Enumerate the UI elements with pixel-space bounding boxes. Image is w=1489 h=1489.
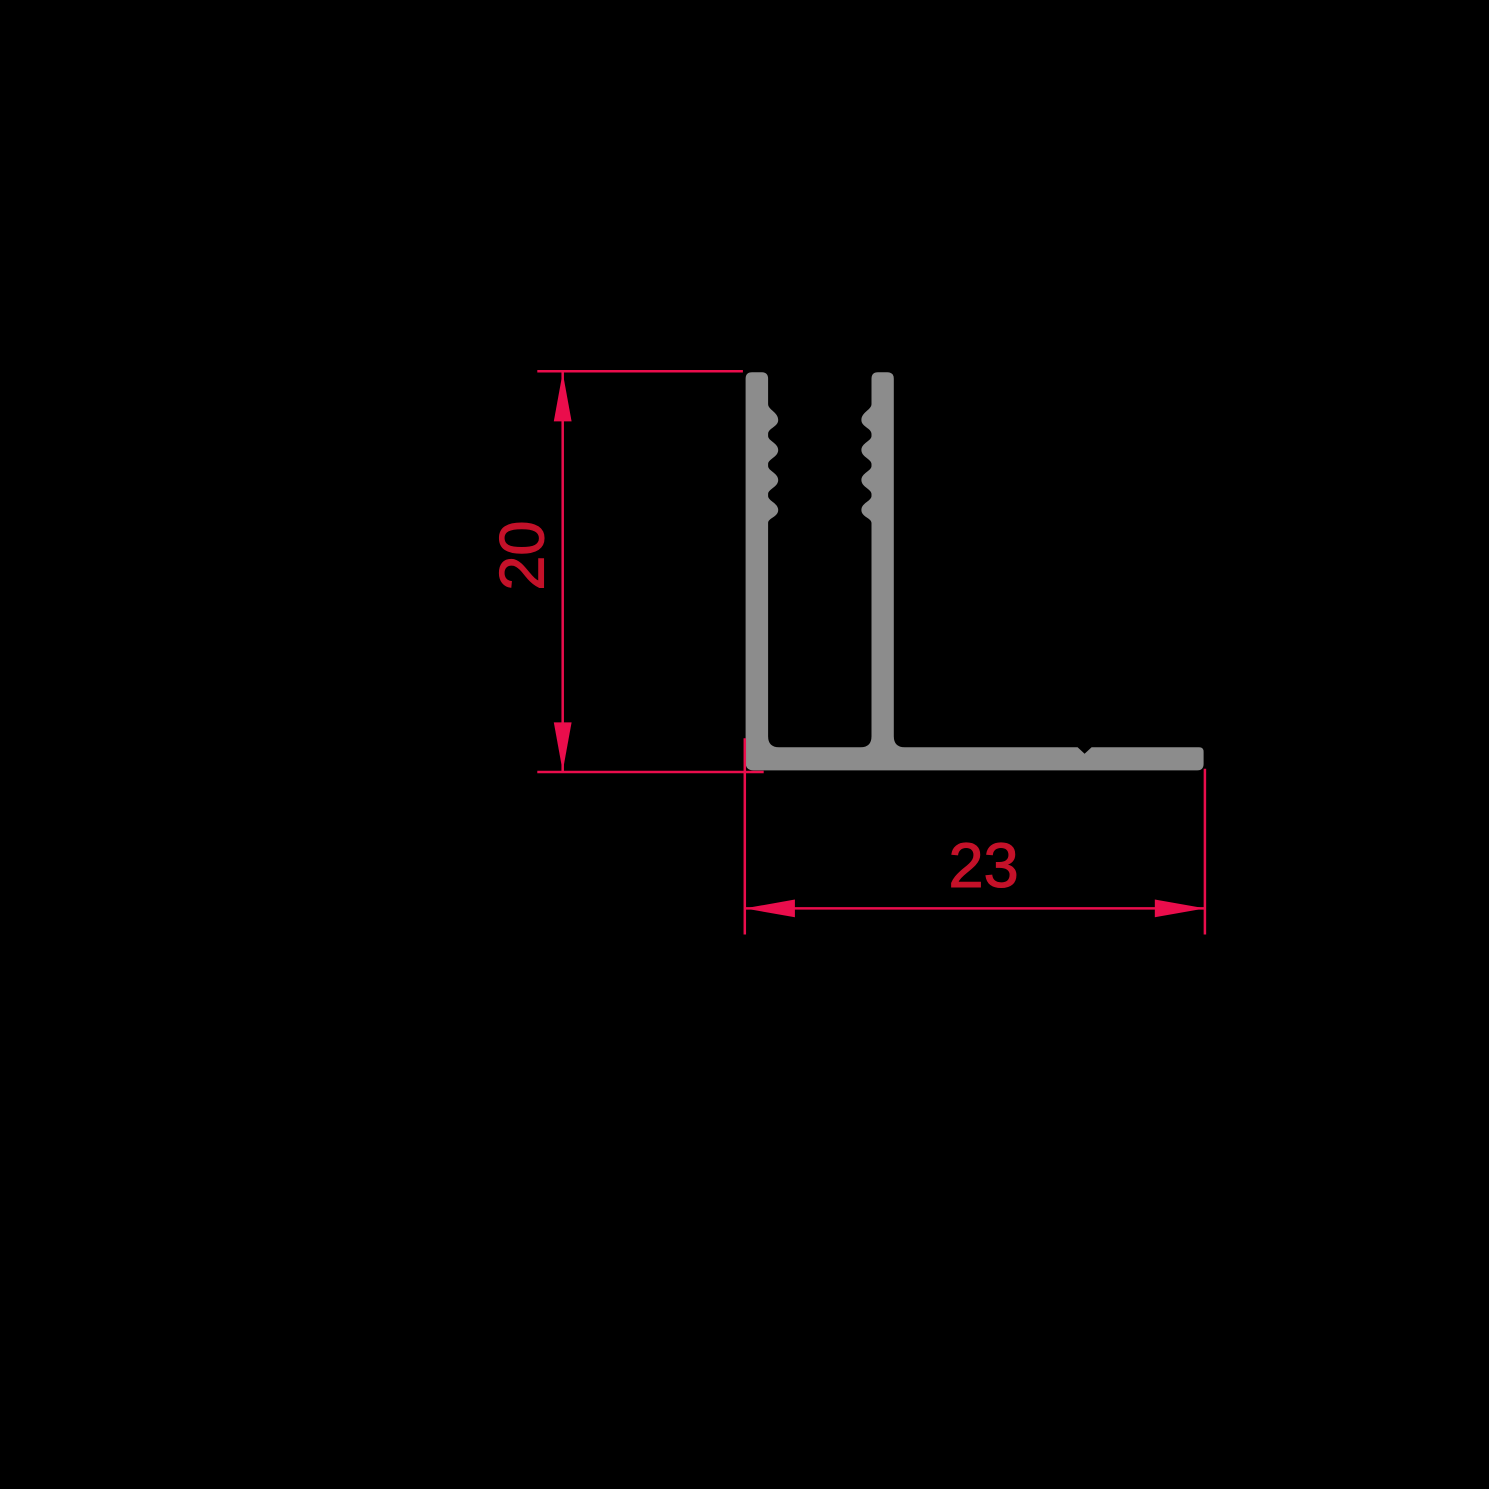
extension line left (23 dim) — [744, 738, 747, 934]
svg-text:20: 20 — [488, 521, 558, 591]
extension line right (23 dim) — [1204, 769, 1207, 935]
extension line bottom (20 dim) — [537, 771, 763, 774]
extension line top (20 dim) — [537, 370, 743, 373]
dimension line 20 (vertical) — [561, 373, 564, 772]
svg-text:23: 23 — [949, 831, 1019, 901]
arrowhead up (20 dim) — [554, 373, 572, 422]
aluminium profile cross-section body — [746, 372, 1204, 770]
arrowhead right (23 dim) — [1155, 900, 1205, 918]
dimension line 23 (horizontal) — [745, 907, 1205, 910]
arrowhead left (23 dim) — [745, 900, 795, 918]
arrowhead down (20 dim) — [554, 722, 572, 771]
